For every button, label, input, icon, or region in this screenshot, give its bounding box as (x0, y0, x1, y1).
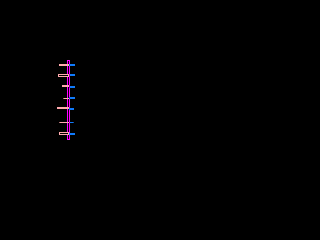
row 3 purple blend pixel column (69, 85, 70, 88)
row 6 pink bar (60, 122, 69, 123)
row 7 hollow pink box bottom border (59, 134, 69, 135)
row 5 purple blend pixel (69, 107, 70, 108)
row 5 blue bar (69, 108, 74, 110)
row 1 blue bar left edge (69, 64, 70, 66)
row 3 pink bar (62, 85, 69, 87)
row 4 pink bar (64, 98, 69, 99)
vertical magenta outlined rectangle: left stripe (67, 61, 68, 139)
vertical magenta outlined rectangle: bottom cap (67, 139, 70, 140)
row 7 blue bar (69, 133, 75, 135)
row 1 blue bar (70, 64, 75, 66)
row 4 blue bar left edge (69, 97, 70, 99)
row 7 hollow pink box right border (68, 133, 69, 134)
row 2 hollow pink box interior (59, 75, 68, 76)
row 5 pink bar (57, 107, 69, 109)
row 4 pink bar dim left pixel (63, 98, 64, 99)
row 2 hollow pink box right border (68, 75, 69, 76)
row 1 pink bar (59, 64, 69, 66)
vertical magenta outlined rectangle: right stripe (69, 61, 70, 139)
row 7 hollow pink box top border (59, 132, 69, 133)
row 2 hollow pink box top border (58, 74, 69, 75)
row 6 blue bar (70, 122, 73, 123)
row 2 hollow pink box left border (58, 75, 59, 76)
row 2 blue bar (70, 74, 75, 76)
row 6 pink bar dim left pixel (59, 122, 60, 123)
row 3 blue bar (70, 86, 75, 88)
row 4 blue bar (70, 97, 75, 99)
row 6 purple blend pixel (69, 122, 70, 123)
vertical magenta outlined rectangle: top cap (67, 60, 70, 61)
row 2 hollow pink box bottom border (58, 76, 69, 77)
row 2 purple blend pixel column (69, 74, 70, 77)
row 6 blue bar dim right pixel (73, 122, 74, 123)
row 7 hollow pink box left border (59, 133, 60, 134)
row 7 hollow pink box interior (60, 133, 68, 134)
